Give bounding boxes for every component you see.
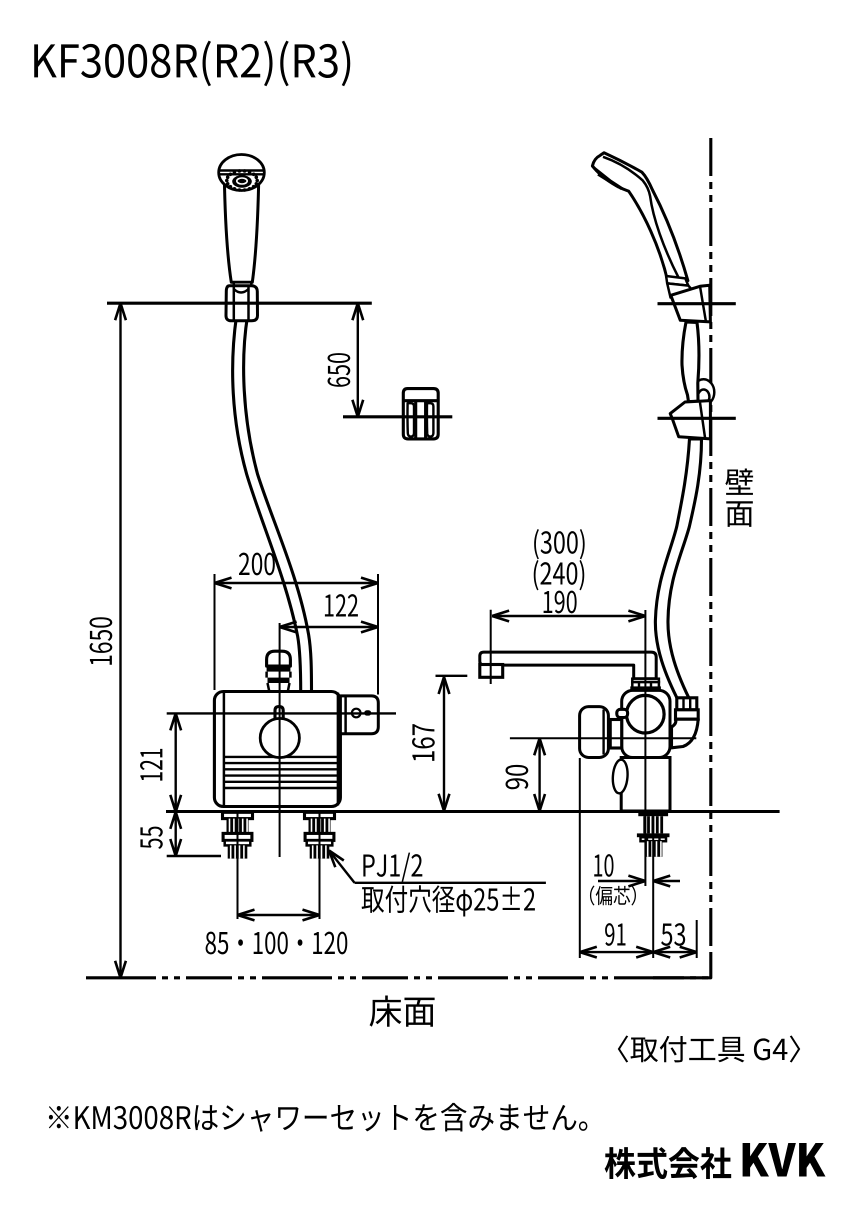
side valve center line: [644, 610, 646, 886]
dimension 200: [214, 574, 216, 690]
upper bracket reference line (side): [658, 302, 736, 305]
top reference line: [107, 302, 372, 305]
mounting shank left (front view): [223, 812, 253, 818]
hose hook (side view): [693, 379, 715, 402]
dimension 190: [492, 615, 645, 617]
handle stem block (side view): [607, 720, 622, 749]
dimension 10 eccentric: [598, 880, 645, 882]
dimension 91-53: [580, 951, 697, 953]
shower handle (front view): [224, 176, 258, 282]
leader PJ1/2: [329, 851, 355, 883]
label wall 壁面: [725, 468, 753, 494]
label (240): [534, 560, 585, 590]
temperature dial (front view): [260, 718, 299, 757]
logo KVK: [743, 1143, 826, 1177]
dimension 90: [538, 738, 540, 811]
mounting shank right (front view): [305, 812, 335, 818]
label 91: [605, 923, 625, 946]
dimension 85-100-120: [238, 914, 320, 916]
valve body column (side view): [621, 758, 670, 812]
front horizontal center line: [167, 712, 396, 714]
dimension 1650: [119, 303, 121, 978]
diverter knob (front view): [267, 651, 291, 666]
shower head (front view): [219, 155, 265, 191]
label 85-100-120: [206, 932, 348, 955]
dimension 167: [443, 677, 445, 811]
check valve unit (front view): [340, 696, 378, 734]
shower handle joint (front view): [234, 282, 252, 291]
label 650: [328, 353, 351, 387]
lower wall bracket (side view): [670, 401, 710, 439]
shower handle joint (side view): [666, 276, 688, 286]
spout connection nut (side view): [632, 679, 659, 682]
label PJ1/2: [363, 853, 422, 882]
note KM3008R: [49, 1103, 588, 1132]
label 90: [506, 765, 529, 789]
label 53: [661, 923, 685, 946]
valve body shoulder (side view): [622, 690, 670, 757]
hanger reference line (front): [343, 415, 452, 418]
label 122: [325, 594, 358, 616]
label 190: [544, 591, 577, 614]
holder connector (side view): [667, 283, 693, 297]
counter deck line: [166, 810, 780, 813]
thermostat mixer body (front view): [214, 692, 340, 807]
logo 株式会社: [605, 1147, 732, 1179]
side shank center line: [652, 812, 654, 958]
front left shank center line: [237, 812, 239, 919]
spout tip (side view): [480, 665, 503, 678]
lever handle grip (side view): [580, 707, 609, 758]
shower hose lower segment (side view): [655, 439, 701, 714]
wall surface phantom line (壁面): [709, 138, 712, 957]
label tool G4: [618, 1035, 800, 1062]
shower hose upper segment (side view): [682, 322, 699, 402]
front body center line: [279, 623, 281, 857]
handle stem (front view): [275, 707, 283, 724]
mounting shank (side view): [638, 812, 668, 816]
label 1650: [90, 617, 113, 665]
front right shank center line: [319, 812, 321, 919]
shower head (side view): [592, 153, 688, 284]
label floor 床面: [370, 995, 435, 1026]
upper wall bracket (side view): [671, 285, 711, 322]
floor phantom line (床面): [86, 976, 711, 979]
spout (side view): [480, 652, 656, 679]
dimension 121: [174, 713, 176, 812]
label 121: [140, 749, 162, 781]
label 55: [140, 827, 162, 849]
side handle center line: [510, 737, 696, 739]
dimension 650: [357, 303, 359, 417]
valve circle (side view): [627, 695, 665, 733]
lower bracket reference line (side): [658, 417, 736, 420]
label mounting hole: [362, 885, 535, 916]
label 167: [412, 724, 435, 761]
title KF3008R(R2)(R3): [34, 41, 350, 87]
drain lever tab (side view): [612, 759, 629, 794]
label 10: [594, 854, 613, 877]
hose fitting (side view): [677, 698, 697, 710]
label (300): [534, 529, 585, 559]
dimension 55: [174, 812, 176, 856]
label eccentric: [590, 886, 636, 906]
shower holder bracket (front view): [226, 286, 258, 321]
label 200: [239, 553, 275, 576]
wall hanger bracket (front view): [403, 389, 438, 439]
dimension 122: [280, 626, 378, 628]
shower hose (front view): [233, 316, 301, 692]
small tab (side view): [617, 709, 628, 717]
